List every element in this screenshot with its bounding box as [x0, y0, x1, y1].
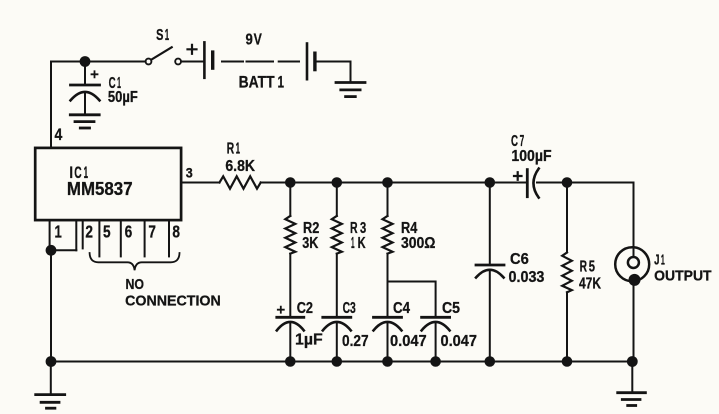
svg-text:5: 5	[589, 259, 595, 276]
svg-text:3K: 3K	[302, 235, 318, 252]
svg-text:0.033: 0.033	[509, 269, 545, 286]
svg-text:S: S	[156, 27, 164, 44]
svg-text:1: 1	[165, 27, 169, 44]
svg-text:100µF: 100µF	[511, 148, 551, 165]
svg-text:OUTPUT: OUTPUT	[654, 268, 712, 285]
svg-text:1µF: 1µF	[295, 331, 323, 348]
svg-text:J: J	[654, 252, 659, 269]
svg-text:5: 5	[103, 221, 111, 241]
svg-text:6.8K: 6.8K	[225, 158, 255, 175]
svg-text:C2: C2	[297, 300, 313, 317]
svg-text:R: R	[580, 259, 588, 276]
svg-text:K: K	[358, 235, 366, 252]
svg-text:3: 3	[186, 165, 193, 181]
svg-text:9: 9	[246, 32, 253, 49]
svg-text:BATT: BATT	[239, 74, 275, 92]
svg-text:0.27: 0.27	[342, 333, 369, 350]
svg-text:1: 1	[236, 140, 240, 157]
svg-text:C6: C6	[510, 251, 529, 268]
svg-text:8: 8	[172, 221, 180, 241]
svg-text:0.047: 0.047	[441, 333, 478, 350]
svg-text:2: 2	[85, 221, 93, 241]
svg-text:NO: NO	[126, 276, 145, 293]
svg-text:MM5837: MM5837	[67, 178, 133, 199]
svg-text:1: 1	[351, 235, 355, 252]
svg-text:7: 7	[148, 221, 156, 241]
svg-text:C4: C4	[393, 300, 410, 317]
svg-text:47K: 47K	[579, 276, 601, 293]
svg-text:6: 6	[125, 221, 133, 241]
svg-text:4: 4	[55, 126, 63, 144]
svg-text:C3: C3	[343, 300, 356, 317]
svg-text:V: V	[254, 32, 262, 49]
svg-text:1: 1	[661, 252, 665, 269]
svg-text:0.047: 0.047	[390, 333, 427, 350]
svg-text:R: R	[227, 140, 235, 157]
svg-text:C5: C5	[442, 300, 460, 317]
svg-text:300Ω: 300Ω	[401, 235, 436, 252]
svg-text:1: 1	[55, 221, 62, 241]
svg-text:CONNECTION: CONNECTION	[125, 293, 221, 310]
svg-text:1: 1	[278, 74, 285, 92]
svg-text:50µF: 50µF	[108, 89, 138, 106]
